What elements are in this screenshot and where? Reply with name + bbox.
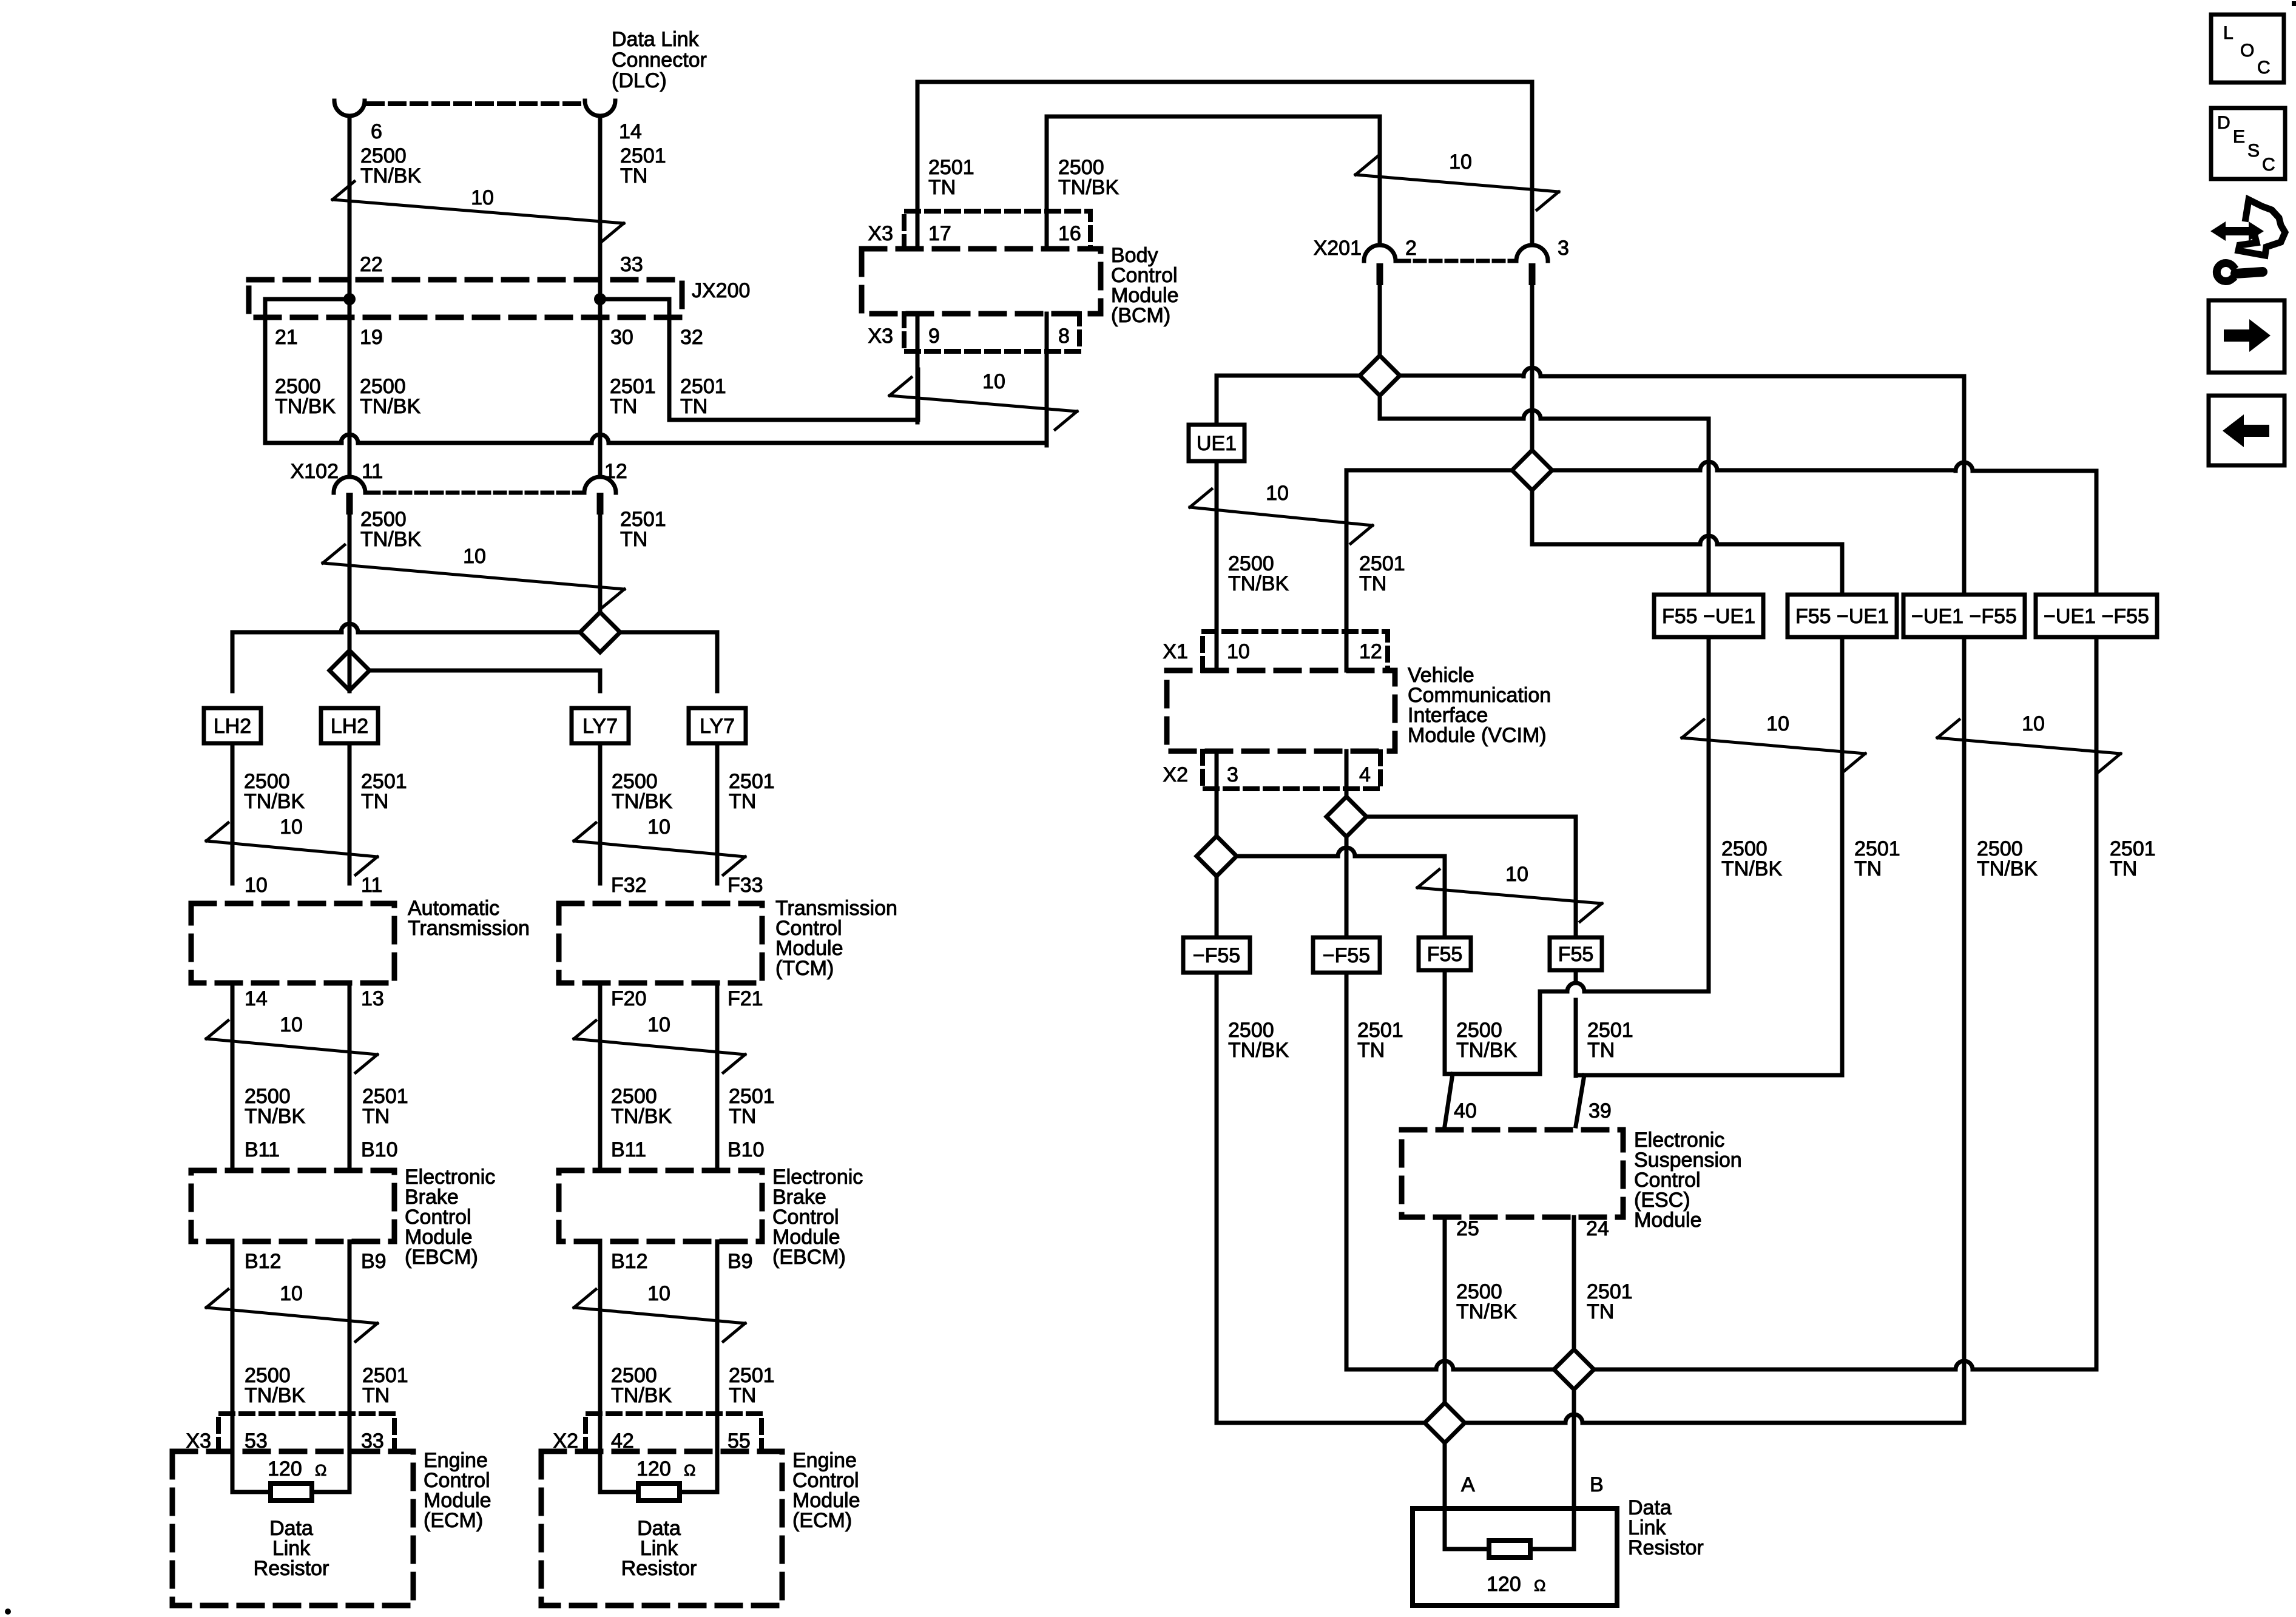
option box LY7 (1) (572, 708, 629, 743)
icon double arrow (2210, 221, 2264, 241)
wire ESC pin 24 drop (1572, 1217, 1576, 1508)
wire EBCM to ECM x=989 (598, 1241, 603, 1492)
connector X201 pin 2 cup (1364, 245, 1396, 261)
svg-text:S: S (2247, 141, 2260, 161)
svg-text:B11: B11 (611, 1138, 646, 1161)
twisted pair slash 10 (U3/U4) (1937, 712, 2121, 772)
svg-text:B10: B10 (728, 1138, 765, 1161)
svg-text:TN/BK: TN/BK (612, 790, 672, 813)
connector X102 dashed body (369, 491, 581, 495)
svg-text:13: 13 (361, 987, 384, 1010)
svg-text:6: 6 (371, 120, 382, 143)
svg-text:TN/BK: TN/BK (1977, 857, 2038, 880)
svg-text:X201: X201 (1314, 237, 1362, 260)
svg-text:30: 30 (610, 326, 633, 349)
label 2500 TN/BK (U1) (1721, 837, 1782, 880)
svg-text:10: 10 (1505, 863, 1528, 886)
icon LOC box (2211, 15, 2284, 83)
svg-text:(DLC): (DLC) (612, 69, 667, 92)
wire ESC pin 25 drop (1443, 1217, 1447, 1508)
svg-text:B11: B11 (245, 1138, 280, 1161)
wire line y619 (UE1 to -UE1-F55 box3) (1217, 356, 1964, 595)
svg-text:B10: B10 (361, 1138, 398, 1161)
label 2501 TN (B10-right) (729, 1085, 775, 1128)
wire AT/TCM to EBCM x=1182 (715, 983, 720, 1170)
pin 16 label (1058, 222, 1081, 245)
svg-text:10: 10 (647, 1013, 670, 1036)
wire branch line1 left (232, 624, 580, 691)
svg-text:−UE1 −F55: −UE1 −F55 (1911, 605, 2017, 628)
twisted pair slash 10 (X201) (1356, 150, 1559, 210)
svg-text:TN: TN (2110, 857, 2137, 880)
connector DLC pin 14 cup (585, 101, 615, 116)
pin F20 label (611, 987, 647, 1010)
svg-text:UE1: UE1 (1197, 432, 1237, 455)
label X1 (1163, 640, 1188, 663)
svg-text:TN/BK: TN/BK (244, 790, 305, 813)
label 2500 TN/BK below X102 (360, 508, 421, 551)
svg-text:X3: X3 (868, 222, 893, 245)
twisted pair slash 10 (U1/U2) (1682, 712, 1865, 772)
svg-text:C: C (2257, 58, 2271, 78)
splice diamond on 2500 wire (329, 650, 370, 690)
wire H1 bus (1346, 637, 2096, 1389)
label 2500 TN/BK (ECM-left) (245, 1364, 305, 1407)
pin 24 label (1586, 1217, 1609, 1240)
svg-text:39: 39 (1589, 1099, 1612, 1122)
module BCM dashed box (862, 249, 1101, 314)
svg-text:TN/BK: TN/BK (360, 528, 421, 551)
svg-text:22: 22 (360, 253, 383, 276)
wire below option box x=383 (231, 743, 235, 883)
pin 9 label (928, 325, 940, 348)
label X2 (VCIM) (1163, 763, 1188, 786)
svg-text:(BCM): (BCM) (1111, 304, 1170, 327)
svg-text:TN/BK: TN/BK (1721, 857, 1782, 880)
label ECM (left) (424, 1449, 491, 1532)
label 2501 TN (pin32) (680, 375, 726, 418)
svg-text:Transmission: Transmission (408, 917, 530, 940)
svg-text:TN/BK: TN/BK (275, 395, 336, 418)
label Automatic Transmission (408, 897, 530, 940)
resistor 120 ohm (DLR) (1445, 1508, 1574, 1558)
label 2501 TN (B10-left) (362, 1085, 408, 1128)
junction block JX200 dashed box (249, 280, 682, 317)
wire D3 bottom to -F55 box M2 (1345, 837, 1349, 938)
connector X102 pin 12 male (597, 493, 604, 515)
svg-text:10: 10 (982, 370, 1005, 393)
pin B11 label (left) (245, 1138, 280, 1161)
twisted pair slash 10 (below X102) (323, 545, 624, 607)
pin 6 label (371, 120, 382, 143)
box UE1 (1189, 425, 1244, 461)
svg-text:14: 14 (245, 987, 268, 1010)
label 2500 TN/BK (B11-left) (245, 1085, 305, 1128)
connector X201 dashed body (1399, 259, 1513, 263)
svg-text:B9: B9 (361, 1250, 387, 1273)
svg-text:F20: F20 (611, 987, 647, 1010)
svg-text:3: 3 (1227, 763, 1238, 786)
svg-text:A: A (1461, 1473, 1475, 1496)
connector X201 pin 3 male (1529, 263, 1536, 285)
pin B label (1590, 1473, 1604, 1496)
pin B12 label (right) (611, 1250, 648, 1273)
svg-text:(TCM): (TCM) (775, 957, 834, 980)
icon hand outline (2238, 200, 2285, 255)
module VCIM dashed box (1167, 670, 1395, 751)
svg-text:X102: X102 (291, 460, 339, 483)
wire 2500 TN/BK DLC pin 6 drop (348, 116, 352, 477)
svg-text:TN/BK: TN/BK (1228, 572, 1289, 595)
wire 2500 through diamond (348, 650, 352, 691)
svg-text:TN: TN (362, 1105, 390, 1128)
svg-text:Resistor: Resistor (254, 1557, 329, 1580)
connector X102 pin 12 cup (584, 477, 616, 493)
module ECM dashed box (left) (172, 1451, 413, 1605)
svg-text:E: E (2233, 127, 2245, 147)
label 2500 TN/BK (B11-right) (611, 1085, 672, 1128)
svg-text:10: 10 (471, 186, 494, 209)
wire X201-3 to diamond2 (1530, 285, 1535, 450)
svg-text:(EBCM): (EBCM) (405, 1246, 478, 1269)
pin 8 label (1058, 325, 1070, 348)
svg-text:TN/BK: TN/BK (245, 1105, 305, 1128)
module ECM dashed box (right) (541, 1451, 782, 1605)
label Transmission Control Module (TCM) (775, 897, 897, 980)
svg-text:40: 40 (1454, 1099, 1477, 1122)
wire AT/TCM to EBCM x=576 (348, 983, 352, 1170)
label JX200 (692, 279, 750, 302)
module EBCM dashed box (left) (191, 1170, 394, 1241)
svg-text:(ECM): (ECM) (792, 1509, 852, 1532)
option box -UE1 -F55 (U4) (2036, 595, 2157, 637)
label circuit below box x=1182 (729, 770, 775, 813)
twisted pair slash 10 (DLC) (333, 181, 624, 241)
label X3 (top) (868, 222, 893, 245)
wire AT/TCM to EBCM x=383 (231, 983, 235, 1170)
svg-text:9: 9 (928, 325, 940, 348)
label Data Link Resistor (left) (254, 1517, 329, 1580)
svg-text:120: 120 (1487, 1573, 1521, 1596)
connector X102 pin 11 male (346, 493, 353, 515)
svg-text:10: 10 (2022, 712, 2045, 735)
twisted pair slash 10 (LH2 pair) (206, 815, 377, 875)
svg-text:LH2: LH2 (214, 715, 251, 738)
svg-text:10: 10 (280, 815, 303, 839)
label 2500 TN/BK (pin19) (360, 375, 420, 418)
connector X3 box (ECM left) (218, 1414, 394, 1451)
box Data Link Resistor (standalone) (1413, 1508, 1617, 1605)
svg-text:TN: TN (361, 790, 388, 813)
wire D4 right to F55 box M3 (1237, 848, 1445, 938)
svg-text:21: 21 (275, 326, 298, 349)
svg-text:(EBCM): (EBCM) (772, 1246, 846, 1269)
svg-text:TN: TN (729, 1105, 756, 1128)
pin 33 label (620, 253, 643, 276)
pin 21 label (275, 326, 298, 349)
svg-text:12: 12 (1359, 640, 1382, 663)
svg-text:X2: X2 (1163, 763, 1188, 786)
wire M1 to H2 (1215, 973, 1219, 1423)
svg-text:Data Link: Data Link (612, 28, 700, 51)
connector X3 box (BCM top) (904, 211, 1090, 249)
pin 3 label (VCIM) (1227, 763, 1238, 786)
pin 12 label (604, 460, 627, 483)
label 2500 TN/BK (pin25) (1456, 1280, 1517, 1323)
svg-text:TN: TN (729, 790, 756, 813)
pin B12 label (left) (245, 1250, 282, 1273)
label 2501 TN (pin24) (1587, 1280, 1633, 1323)
wire D4 bottom to -F55 box M1 (1215, 876, 1219, 938)
svg-text:Resistor: Resistor (621, 1557, 697, 1580)
label 2500 TN/BK (M1) (1228, 1019, 1289, 1062)
svg-text:TN: TN (1357, 1039, 1385, 1062)
svg-text:10: 10 (1227, 640, 1250, 663)
label X3 (186, 1430, 211, 1453)
icon DESC box (2211, 108, 2285, 179)
connector X3 box (BCM bottom) (904, 314, 1079, 351)
splice diamond D3 (1326, 797, 1366, 837)
label 120 ohm (left) (268, 1457, 326, 1480)
twisted pair slash 10 (LY7 pair) (574, 815, 745, 875)
option box -F55 (M1) (1183, 937, 1250, 973)
wire D2 bottom to F55-UE1 box2 (1532, 490, 1842, 595)
svg-text:33: 33 (620, 253, 643, 276)
svg-text:19: 19 (360, 326, 383, 349)
connector DLC pin 6 cup (334, 101, 365, 116)
resistor 120 ohm (ECM right) (600, 1484, 717, 1501)
svg-text:−F55: −F55 (1323, 944, 1370, 967)
wire BCM pin 9 drop (916, 314, 920, 422)
svg-text:TN: TN (729, 1384, 756, 1407)
wire H2 bus (1217, 637, 1964, 1443)
wire X201-2 to diamond (1378, 285, 1382, 356)
label Data Link Resistor (right) (1628, 1496, 1704, 1559)
wire bus2 2500 TN/BK (BCM16 to X201-2) (1047, 116, 1380, 249)
twisted pair slash 10 (F55 pair) (1417, 863, 1602, 922)
wire D1 bottom to F55-UE1 box1 (1380, 396, 1709, 595)
label 120 ohm (DLR) (1487, 1573, 1545, 1596)
connector X2 box (ECM right) (586, 1414, 761, 1451)
pin 19 label (360, 326, 383, 349)
label EBCM (right) (772, 1166, 863, 1269)
wire AT/TCM to EBCM x=989 (598, 983, 603, 1170)
wire VCIM X2-4 to diamond D3 (1345, 751, 1349, 797)
twisted pair slash 10 (AT pins) (206, 1013, 377, 1073)
svg-text:Module: Module (1634, 1209, 1702, 1232)
svg-text:O: O (2240, 41, 2254, 61)
svg-text:10: 10 (1266, 482, 1289, 505)
svg-text:F55: F55 (1558, 943, 1594, 966)
pin 13 label (361, 987, 384, 1010)
option box LH2 (2) (321, 708, 378, 743)
label X102 (291, 460, 339, 483)
label 2501 TN (ECM-left) (362, 1364, 408, 1407)
svg-text:Resistor: Resistor (1628, 1536, 1704, 1559)
wire BCM pin 8 drop (1045, 314, 1049, 445)
connector X2 box (VCIM) (1203, 751, 1380, 789)
wire EBCM to ECM x=1182 (715, 1241, 720, 1492)
svg-text:Ω: Ω (684, 1461, 695, 1479)
twisted pair slash 10 (BCM pins) (890, 370, 1077, 430)
label ESC (1634, 1129, 1742, 1232)
pin 39 label (1589, 1099, 1612, 1122)
wire D2 left to VCIM X1-12 (1346, 470, 1512, 670)
svg-text:25: 25 (1456, 1217, 1479, 1240)
svg-text:120: 120 (636, 1457, 671, 1480)
pin A label (1461, 1473, 1475, 1496)
connector X1 box (VCIM) (1203, 632, 1388, 670)
label 2500 TN/BK (VCIM10) (1228, 552, 1289, 595)
junction dot on 2500 wire (343, 293, 356, 305)
svg-text:TN/BK: TN/BK (360, 395, 420, 418)
wire UE1 to VCIM X1-10 (1215, 461, 1219, 670)
svg-text:L: L (2223, 23, 2234, 43)
icon back arrow box (2209, 396, 2284, 465)
wire below option box x=576 (348, 743, 352, 883)
svg-text:TN: TN (620, 164, 647, 187)
svg-text:4: 4 (1359, 763, 1371, 786)
label 2501 TN below X102 (620, 508, 666, 551)
label 2501 TN (M2) (1357, 1019, 1403, 1062)
pin 40 label (1454, 1099, 1477, 1122)
option box F55 -UE1 (U1) (1654, 595, 1763, 637)
svg-text:TN/BK: TN/BK (245, 1384, 305, 1407)
wire 2500 below X102 (348, 515, 352, 650)
svg-text:TN/BK: TN/BK (1228, 1039, 1289, 1062)
svg-text:TN/BK: TN/BK (1456, 1300, 1517, 1323)
svg-text:C: C (2262, 155, 2275, 175)
connector X201 pin 2 male (1377, 263, 1383, 285)
label 2501 TN (BCM 17) (928, 156, 974, 199)
pin F33 label (728, 874, 763, 897)
splice diamond D4 (1197, 836, 1237, 876)
pin 11 label (361, 874, 382, 897)
splice diamond on 2501 wire (580, 612, 620, 652)
svg-text:10: 10 (647, 1282, 670, 1305)
pin 17 label (928, 222, 951, 245)
pin F21 label (728, 987, 763, 1010)
wire EBCM to ECM x=576 (348, 1241, 352, 1492)
module Automatic Transmission dashed box (191, 903, 394, 983)
label 2501 TN (ECM-right) (729, 1364, 775, 1407)
svg-text:10: 10 (280, 1282, 303, 1305)
label 2501 TN (pin30) (610, 375, 656, 418)
label ECM (right) (792, 1449, 860, 1532)
svg-text:B12: B12 (611, 1250, 648, 1273)
svg-text:10: 10 (647, 815, 670, 839)
svg-text:14: 14 (619, 120, 642, 143)
svg-text:TN: TN (1587, 1039, 1615, 1062)
svg-text:(ECM): (ECM) (424, 1509, 483, 1532)
wire below option box x=989 (598, 743, 603, 883)
svg-text:X1: X1 (1163, 640, 1188, 663)
svg-text:−UE1 −F55: −UE1 −F55 (2044, 605, 2149, 628)
twisted pair slash 10 (EBCM-right pins) (574, 1282, 745, 1342)
splice diamond D2 (x201-3) (1512, 450, 1552, 490)
label X201 (1314, 237, 1362, 260)
svg-text:F33: F33 (728, 874, 763, 897)
pin 4 label (VCIM) (1359, 763, 1371, 786)
svg-text:F55 −UE1: F55 −UE1 (1795, 605, 1889, 628)
pin 22 label (360, 253, 383, 276)
icon forward arrow box (2209, 300, 2284, 373)
label circuit below box x=383 (244, 770, 305, 813)
svg-text:TN: TN (610, 395, 637, 418)
label 2501 TN (620, 144, 666, 187)
svg-text:F32: F32 (611, 874, 647, 897)
svg-text:TN/BK: TN/BK (611, 1384, 672, 1407)
wire branch line1 right (620, 632, 717, 691)
wire JX200 pin 32 branch (600, 299, 918, 420)
svg-text:8: 8 (1058, 325, 1070, 348)
wire bus1 2501 TN (BCM17 to X201-3) (917, 82, 1532, 249)
pin B10 label (right) (728, 1138, 765, 1161)
label X3 (bottom) (868, 325, 893, 348)
label 2500 TN/BK (BCM 16) (1058, 156, 1119, 199)
svg-text:TN/BK: TN/BK (360, 164, 421, 187)
wire D2 right to -UE1-F55 box4 (1552, 462, 2096, 595)
module TCM dashed box (559, 903, 762, 983)
wire VCIM X2-3 to diamond D4 (1215, 751, 1219, 836)
wire pin21 branch to BCM pin 8 (265, 370, 1047, 443)
wire D3 right to F55 box M4 (1366, 817, 1576, 938)
twisted pair slash 10 (TCM pins) (574, 1013, 745, 1073)
svg-text:17: 17 (928, 222, 951, 245)
twisted pair slash 10 (UE1) (1190, 482, 1373, 544)
svg-text:Ω: Ω (1534, 1576, 1545, 1595)
option box F55 (M3) (1419, 937, 1471, 970)
pin 32 label (680, 326, 703, 349)
wire M2 to H1 (1345, 973, 1349, 1369)
svg-text:TN: TN (1359, 572, 1386, 595)
pin B9 label (left) (361, 1250, 387, 1273)
icon wrench (2217, 263, 2263, 281)
svg-text:TN: TN (362, 1384, 390, 1407)
svg-text:10: 10 (280, 1013, 303, 1036)
pin 25 label (1456, 1217, 1479, 1240)
option box LH2 (1) (204, 708, 261, 743)
label 2501 TN (M4) (1587, 1019, 1633, 1062)
wire 2501 TN DLC pin 14 drop (598, 116, 603, 477)
resistor 120 ohm (ECM left) (232, 1484, 349, 1501)
wire U2 return (2501) to pin39 node (1576, 637, 1842, 1075)
svg-text:−F55: −F55 (1193, 944, 1240, 967)
svg-text:Ω: Ω (315, 1461, 326, 1479)
svg-text:11: 11 (361, 874, 382, 897)
wire ESC pin 39 lead (1576, 1075, 1584, 1126)
svg-text:Connector: Connector (612, 49, 707, 72)
pin 2 label (1405, 237, 1417, 260)
label X2 (553, 1430, 578, 1453)
svg-text:X3: X3 (868, 325, 893, 348)
label 2501 TN (U4) (2110, 837, 2156, 880)
label VCIM (1408, 664, 1551, 747)
svg-text:2: 2 (1405, 237, 1417, 260)
wire 2501 below X102 (598, 515, 603, 612)
svg-text:10: 10 (1449, 150, 1472, 174)
pin 3 label (1558, 237, 1569, 260)
svg-text:TN/BK: TN/BK (611, 1105, 672, 1128)
svg-text:10: 10 (1766, 712, 1789, 735)
svg-text:F55: F55 (1427, 943, 1463, 966)
svg-text:TN: TN (1854, 857, 1882, 880)
pin F32 label (611, 874, 647, 897)
label Data Link Resistor (right) (621, 1517, 697, 1580)
wire JX200 pin 21 branch (265, 299, 349, 443)
wire below option box x=1182 (715, 743, 720, 883)
pin 14 label (245, 987, 268, 1010)
